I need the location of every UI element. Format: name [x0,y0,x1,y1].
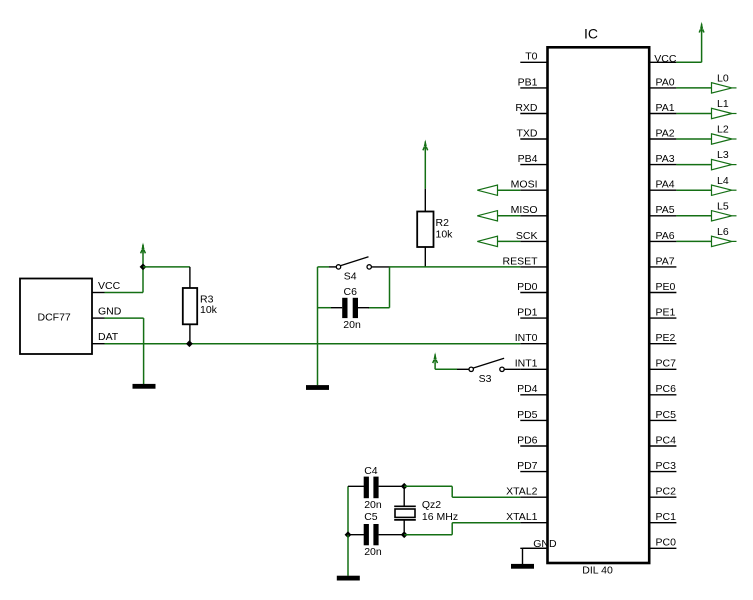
svg-text:L5: L5 [717,200,729,212]
switch S3 right lead [504,368,520,370]
IC pin SCK (left, row 8) [520,240,547,242]
wire from VCC arrow to S3 [434,363,436,369]
DCF77 pin VCC stub [92,292,105,294]
svg-text:PD0: PD0 [517,281,538,293]
svg-text:PC6: PC6 [656,383,677,395]
capacitor C6 left stub [331,307,342,309]
IC pin PB4 (left, row 5) [520,164,547,166]
junction J3 C4/XTAL2 [401,483,408,490]
svg-text:L2: L2 [717,124,729,136]
output arrow symbol L4 [712,185,732,195]
crystal Qz2 bottom lead [403,520,405,535]
IC pin PA6 (right, row 8) [649,240,676,242]
IC pin PD6 (left, row 16) [520,445,547,447]
svg-text:PC2: PC2 [656,486,677,498]
output arrow symbol L2 [712,134,732,144]
wire from RESET corner down to C6 [389,267,391,308]
svg-text:PC0: PC0 [656,537,677,549]
wire GND vertical down [143,318,145,384]
junction J5 rail/C5 [345,531,352,538]
wire net SCK [498,240,521,242]
input arrow symbol on MISO (points left) [477,211,497,221]
wire VCC net vertical [701,31,703,63]
svg-text:PE2: PE2 [656,332,676,344]
IC U1 body (DIL 40) [548,47,650,563]
capacitor C5 plates [364,524,369,545]
svg-text:VCC: VCC [654,53,677,65]
DCF77 pin DAT stub [92,343,105,345]
ground symbol GND4 (IC) [511,564,534,569]
resistor R2 bottom lead [424,247,426,267]
wire stub after arrow L4 [732,189,737,191]
wire net MISO [498,215,521,217]
svg-text:GND: GND [98,305,122,317]
IC pin PC0 (right, row 20) [649,547,676,549]
svg-text:DCF77: DCF77 [38,311,71,323]
input arrow symbol on MOSI (points left) [477,185,497,195]
supply symbol VCC arrow P4 (S3) [433,352,438,363]
wire S4/C6 rail vertical to ground [317,267,319,385]
wire from VCC arrow to R2 [424,149,426,189]
IC pin T0 (left, row 1) [520,61,547,63]
IC pin RXD (left, row 3) [520,113,547,115]
svg-text:PC3: PC3 [656,460,677,472]
IC pin XTAL2 (left, row 18) [520,496,547,498]
switch S4 right lead [371,266,389,268]
svg-text:IC: IC [584,26,598,42]
svg-text:XTAL2: XTAL2 [506,486,537,498]
IC pin PE1 (right, row 11) [649,317,676,319]
wire S3 horizontal to left contact [435,368,457,370]
switch S4 right contact circle [367,265,371,269]
wire GND from IC pin [523,547,548,549]
svg-text:PE1: PE1 [656,307,676,319]
svg-text:C4: C4 [364,465,378,477]
output arrow symbol L6 [712,236,732,246]
svg-text:L0: L0 [717,73,729,85]
svg-text:PA3: PA3 [656,153,675,165]
svg-text:10k: 10k [436,229,454,241]
IC pin XTAL1 (left, row 19) [520,522,547,524]
svg-text:L1: L1 [717,98,729,110]
svg-text:SCK: SCK [516,230,538,242]
IC pin PC6 (right, row 14) [649,394,676,396]
output arrow symbol L1 [712,108,732,118]
IC pin INT0 (left, row 12) [520,343,547,345]
svg-text:PD4: PD4 [517,383,538,395]
IC pin MISO (left, row 7) [520,215,547,217]
IC pin PA1 (right, row 3) [649,113,676,115]
svg-text:10k: 10k [200,304,218,316]
svg-text:INT1: INT1 [515,358,538,370]
IC pin PA7 (right, row 9) [649,266,676,268]
wire VCC from DCF77 to rail [105,292,144,294]
svg-text:PD7: PD7 [517,460,538,472]
wire stub after arrow L6 [732,240,737,242]
capacitor C6 plates [342,298,347,318]
svg-text:PA0: PA0 [656,76,675,88]
IC pin PD7 (left, row 17) [520,471,547,473]
capacitor C5 left lead [348,534,364,536]
wire net MOSI [498,189,521,191]
IC pin PD1 (left, row 11) [520,317,547,319]
IC pin INT1 (left, row 13) [520,368,547,370]
capacitor C4 plates [364,477,369,499]
crystal Qz2 top plate [394,505,416,507]
crystal Qz2 body [395,509,415,517]
switch S4 left contact circle [336,265,340,269]
wire VCC rail to R3 [143,266,190,268]
svg-text:DIL 40: DIL 40 [582,565,613,577]
crystal Qz2 top lead [403,486,405,506]
svg-text:20n: 20n [364,499,382,511]
svg-text:PD6: PD6 [517,434,538,446]
IC pin PA5 (right, row 7) [649,215,676,217]
capacitor C5 right lead [379,534,405,536]
DCF77 pin GND stub [92,317,105,319]
wire stub after arrow L1 [732,113,737,115]
output arrow symbol L3 [712,159,732,169]
svg-text:PB1: PB1 [518,76,538,88]
IC pin MOSI (left, row 6) [520,189,547,191]
svg-text:RXD: RXD [515,102,538,114]
svg-text:DAT: DAT [98,331,119,343]
svg-text:PA6: PA6 [656,230,675,242]
svg-text:C5: C5 [364,511,378,523]
input arrow symbol on SCK (points left) [477,236,497,246]
IC pin PA3 (right, row 5) [649,164,676,166]
wire VCC net from IC pin VCC [676,61,701,63]
wire stub after arrow L0 [732,87,737,89]
svg-text:Qz2: Qz2 [422,499,441,511]
svg-text:20n: 20n [364,546,382,558]
junction J4 C5/XTAL1 [401,531,408,538]
svg-text:INT0: INT0 [515,332,538,344]
wire C6 right lead green [368,307,390,309]
resistor R3 top lead [189,267,191,288]
supply symbol VCC arrow P3 (R2 pull-up) [423,140,428,151]
DCF77 receiver module body [20,279,92,355]
IC pin PB1 (left, row 2) [520,87,547,89]
IC pin PC7 (right, row 13) [649,368,676,370]
svg-text:S4: S4 [344,271,357,283]
switch S4 left lead [329,266,336,268]
IC pin PD5 (left, row 15) [520,419,547,421]
IC pin TXD (left, row 4) [520,138,547,140]
wire RESET net from S4 corner to IC [390,266,521,268]
svg-text:PB4: PB4 [518,153,538,165]
wire VCC rail vertical up [142,267,144,293]
wire C6 left to rail [318,307,332,309]
wire net L1 from pin PA1 [676,113,711,115]
IC pin VCC (right, row 1) [649,61,676,63]
wire net L2 from pin PA2 [676,138,711,140]
svg-text:PE0: PE0 [656,281,676,293]
IC pin PA0 (right, row 2) [649,87,676,89]
resistor R2 body [417,212,433,248]
IC pin PE0 (right, row 10) [649,292,676,294]
switch S3 right contact circle [500,367,504,371]
IC pin PC3 (right, row 17) [649,471,676,473]
supply symbol VCC arrow P1 (IC VCC) [699,22,704,33]
IC pin PD4 (left, row 14) [520,394,547,396]
wire net L4 from pin PA4 [676,189,711,191]
wire net L5 from pin PA5 [676,215,711,217]
wire GND from DCF77 [105,317,144,319]
capacitor C4 right lead [379,485,405,487]
IC pin PC5 (right, row 15) [649,419,676,421]
svg-text:PA5: PA5 [656,204,675,216]
svg-text:PC7: PC7 [656,358,677,370]
resistor R2 top lead [424,189,426,212]
wire net L3 from pin PA3 [676,164,711,166]
IC pin PD0 (left, row 10) [520,292,547,294]
IC pin PA4 (right, row 6) [649,189,676,191]
svg-text:PA7: PA7 [656,255,675,267]
IC pin PC4 (right, row 16) [649,445,676,447]
svg-text:16 MHz: 16 MHz [422,511,458,523]
IC pin RESET (left, row 9) [520,266,547,268]
IC pin PC1 (right, row 19) [649,522,676,524]
ground symbol GND1 (DCF77) [133,384,156,389]
IC pin PA2 (right, row 4) [649,138,676,140]
IC pin PE2 (right, row 12) [649,343,676,345]
svg-text:MOSI: MOSI [511,179,538,191]
wire S4 left rail horizontal [318,266,330,268]
output arrow symbol L5 [712,211,732,221]
svg-text:S3: S3 [479,373,492,385]
wire stub after arrow L2 [732,138,737,140]
IC pin PC2 (right, row 18) [649,496,676,498]
wire XTAL2 net [404,485,452,487]
svg-text:R2: R2 [436,217,450,229]
wire DAT net from DCF77 to INT0 [105,343,521,345]
svg-text:PD1: PD1 [517,307,538,319]
svg-text:MISO: MISO [511,204,538,216]
capacitor C4 left lead [348,485,364,487]
svg-text:C6: C6 [344,286,358,298]
svg-text:PD5: PD5 [517,409,538,421]
junction J1 VCC rail [140,264,147,271]
svg-text:PA4: PA4 [656,179,675,191]
ground symbol GND2 (S4/C6) [306,385,329,390]
wire stub after arrow L3 [732,164,737,166]
capacitor C6 right stub [358,307,369,309]
svg-text:PC1: PC1 [656,511,677,523]
svg-text:RESET: RESET [502,255,538,267]
wire net L6 from pin PA6 [676,240,711,242]
svg-text:L6: L6 [717,226,729,238]
svg-text:T0: T0 [525,51,537,63]
wire XTAL1 net [404,534,452,536]
svg-text:PC5: PC5 [656,409,677,421]
crystal Qz2 bottom plate [394,519,416,521]
IC pin GND (left, row 20) [520,547,547,549]
svg-text:PA1: PA1 [656,102,675,114]
junction J2 DAT/R3 [186,340,193,347]
switch S3 lever [473,358,504,368]
switch S3 left lead [457,368,469,370]
supply symbol VCC arrow P2 (DCF77) [141,243,146,254]
resistor R3 bottom lead [189,324,191,343]
svg-text:L4: L4 [717,175,729,187]
svg-text:PA2: PA2 [656,127,675,139]
ground symbol GND3 (C4/C5) [337,576,360,581]
svg-text:L3: L3 [717,149,729,161]
svg-text:TXD: TXD [517,127,538,139]
wire left rail C4/C5 vertical [347,486,349,534]
wire rail to ground (crystal) [347,535,349,576]
output arrow symbol L0 [712,83,732,93]
wire net L0 from pin PA0 [676,87,711,89]
resistor R3 body [183,288,197,324]
switch S4 lever [340,257,368,266]
wire stub after arrow L5 [732,215,737,217]
svg-text:XTAL1: XTAL1 [506,511,537,523]
svg-text:VCC: VCC [98,280,121,292]
svg-text:PC4: PC4 [656,434,677,446]
switch S3 left contact circle [469,367,473,371]
svg-text:20n: 20n [343,319,361,331]
